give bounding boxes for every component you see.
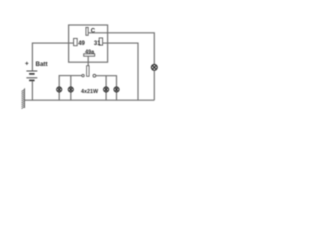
terminal C rect	[86, 27, 88, 35]
pilot lamp	[151, 65, 157, 71]
lamp L3	[104, 87, 109, 92]
svg-text:C: C	[91, 28, 96, 34]
lamp L2	[68, 87, 73, 92]
right rail wire	[96, 76, 117, 101]
terminal 49 rect	[74, 38, 78, 45]
right lamp 3 drop wire	[105, 76, 107, 101]
wire pilot lamp to bus	[153, 70, 155, 100]
relay box U1 (flasher unit outline)	[69, 25, 108, 62]
lamp L1	[57, 87, 62, 92]
wire battery to bus	[31, 81, 33, 100]
switch right contact	[93, 74, 96, 77]
svg-text:4x21W: 4x21W	[81, 89, 99, 95]
switch left contact	[82, 74, 84, 76]
svg-text:31: 31	[94, 41, 101, 47]
svg-text:49a: 49a	[85, 50, 95, 56]
wire 31 to bus	[103, 43, 138, 100]
svg-text:49: 49	[78, 41, 85, 47]
wire 49a down to switch	[87, 56, 89, 65]
svg-text:+: +	[25, 60, 29, 67]
wire C to right and down to pilot lamp	[88, 33, 154, 65]
battery plate 2 short thick	[29, 73, 34, 75]
battery plate 4 short thick	[29, 79, 34, 81]
bus wire (ground rail)	[25, 99, 155, 101]
svg-text:Batt: Batt	[36, 61, 48, 68]
wire 49 to battery corner	[32, 43, 73, 71]
ground symbol	[22, 88, 25, 109]
terminal 49a rect	[84, 54, 95, 56]
battery Batt plate 1 long	[26, 70, 37, 72]
switch S lever	[87, 66, 90, 77]
terminal 31 rect	[99, 38, 102, 45]
left lamp 2 drop wire	[70, 76, 72, 101]
battery plate 3 long	[26, 77, 37, 79]
lamp L4	[114, 87, 119, 92]
left rail wire	[59, 76, 82, 101]
